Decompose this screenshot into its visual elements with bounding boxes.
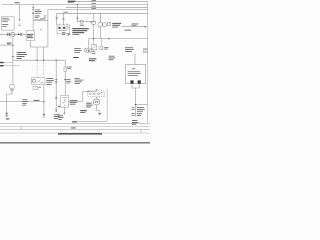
label right of coil [104, 46, 108, 49]
ground G4 symbol [5, 113, 8, 115]
wire y26.7 to border [122, 26, 145, 28]
label right of x135.5 [137, 107, 145, 116]
wire dropper x77.3 [76, 4, 78, 21]
label big dark block ceiling panel [72, 28, 89, 35]
coil circle K3 [100, 47, 103, 50]
label MAX a [132, 23, 139, 26]
wire y104.5 to border [136, 104, 148, 106]
filament glyphs [107, 22, 111, 26]
node dot row [18, 34, 20, 36]
relay K3 box [91, 45, 96, 50]
wire bus B3 [66, 6, 148, 8]
wire dropper x63.5 [63, 13, 65, 25]
node dot x65.2 y79.5 [64, 79, 66, 81]
label U1 text lines [2, 18, 10, 27]
arrow into border [145, 26, 147, 28]
lamp L2 circle [98, 22, 103, 27]
U3 inner marks [59, 29, 67, 32]
footer label b [71, 127, 76, 130]
label tiny left of K2 [58, 106, 60, 107]
connector bars x63.5 [63, 17, 65, 20]
wire stub y65.8 [4, 65, 20, 67]
wire lamp dropper x93.5 [93, 13, 95, 21]
label C4 near corner [44, 15, 46, 18]
wire right border [147, 2, 149, 124]
switch dashed box D1 [88, 91, 105, 97]
wire corner B x56.7 [56, 13, 58, 25]
label floating text x74 [75, 78, 84, 84]
node dot y38.6 [93, 38, 95, 40]
label wire color on B2 [92, 2, 96, 5]
connector bars on x33.1 [32, 6, 34, 9]
label protection mode text [17, 52, 27, 59]
wire stub y62.6 [4, 62, 13, 64]
wire dashed link x43.6 [43, 47, 45, 60]
switch box U3 [57, 25, 70, 34]
relay K2 box [61, 95, 69, 107]
footer rule 4 [0, 132, 150, 134]
motor M1 letter [95, 101, 97, 103]
wire terminal drops [132, 84, 139, 117]
wire motor to ground [96, 105, 98, 110]
connector bars left of x135.5 [132, 106, 135, 109]
wire vertical x30.3 [29, 41, 31, 47]
node dot x43.9 [43, 101, 45, 103]
terminal T2 [138, 80, 141, 83]
footer title dark text [58, 133, 102, 134]
label G text below K2 [58, 115, 63, 119]
relay K2 contacts [62, 98, 67, 107]
label U4 text [128, 71, 141, 75]
fuse F2 on x65.2 [64, 67, 66, 71]
wire fuse row y34.3 [0, 33, 26, 35]
connector arrow down at x19.5 [19, 19, 21, 21]
connector bars x77.3 [76, 16, 78, 19]
label wire color on B1 [92, 0, 96, 2]
footer tick right [140, 129, 142, 133]
footer label c [6, 117, 10, 120]
fuse F1 circle [11, 32, 15, 36]
wire vertical x88.4 [87, 39, 89, 49]
label wire color on B3 [92, 5, 96, 8]
wire below lamps [99, 27, 101, 39]
wire y45.1 left stub [0, 44, 13, 46]
footer rule 2 [0, 126, 150, 128]
K3 inner mark [92, 45, 96, 49]
U3 top terminal ticks [60, 24, 68, 25]
connector arrow x64.3 [63, 113, 65, 115]
wire run y20.3 [33, 19, 48, 21]
U3 contact squares [58, 27, 60, 29]
module box right of flasher [89, 49, 92, 52]
connector bars K3 [92, 50, 95, 53]
label bus B1 [68, 0, 76, 3]
wire y101.5 left run [0, 101, 44, 103]
label MAX b [125, 29, 132, 32]
footer rule 3 [0, 128, 150, 130]
wire below L1 [93, 25, 95, 39]
wire vertical x65.2 [64, 60, 66, 95]
wire dashed link x37.1 [36, 47, 38, 60]
label BL-W on y101.5 [34, 99, 40, 102]
label lamps dark text [112, 23, 121, 28]
motor M1 circle [93, 99, 99, 105]
label tiny in U4 [132, 67, 135, 70]
arrow right on y91.5 [88, 91, 90, 93]
wire feed solenoid [134, 54, 136, 65]
wire jog to ground col [7, 91, 12, 113]
node dot y60.2 c [55, 59, 57, 61]
label K1 text [46, 78, 54, 85]
connector bars x56.2 [55, 96, 57, 99]
relay K1 coil circle [32, 79, 35, 82]
fuse block box U1 [1, 17, 14, 30]
arrow on y38.6 [108, 38, 110, 40]
wire bus B5 [57, 12, 148, 14]
wire vertical x13 [12, 36, 14, 84]
label W-BL [7, 42, 11, 45]
connector pins below arrow [19, 23, 21, 26]
connector chevron [68, 33, 70, 35]
label ignition switch text [35, 10, 42, 21]
node dot x33.1 [32, 12, 34, 14]
label U2 text [27, 34, 34, 38]
label wire color on B5 [64, 11, 68, 14]
wire dropper x19.5 [19, 4, 21, 20]
footer label a [72, 121, 77, 124]
wire bus B1 HOT AT ALL TIMES [68, 1, 148, 3]
connector dashes x56 column [55, 79, 58, 83]
label text mid left col [22, 99, 28, 105]
enclosure edge right [73, 89, 108, 122]
label text x108 y56 [109, 56, 115, 60]
U3 circle [66, 27, 69, 30]
label K2 text [70, 100, 78, 104]
connector module left col [10, 85, 14, 88]
wire y47 [30, 46, 48, 48]
relay K1 contact [38, 80, 44, 83]
lamp L1 circle [92, 21, 96, 25]
relay K1 box [32, 78, 46, 85]
ground G2 marks [55, 109, 57, 112]
arrow small up x40.9 [40, 28, 41, 30]
wire y21.7 with arrow [77, 21, 91, 23]
flasher circle [85, 48, 89, 52]
lamp L3 circle [102, 23, 106, 27]
terminal T1 [130, 80, 133, 83]
wire long y38.6 [88, 38, 147, 40]
label tiny left edge [88, 49, 90, 52]
wire dropper x33.1 ignition feed [32, 4, 34, 30]
D1 contacts [89, 93, 91, 95]
label dark G3 [80, 110, 87, 111]
wire bus B4 [48, 9, 148, 11]
wire K2 bottom drop [63, 107, 65, 113]
wire lamp dropper x100.4 [99, 13, 101, 22]
node dot x135.5 [135, 104, 137, 106]
wire K3 bottom [93, 50, 95, 52]
node dot y60.2 b [43, 59, 45, 61]
label on B2 [15, 1, 20, 4]
label dark small under hazard [73, 57, 78, 58]
label wire color x65.2 [66, 79, 71, 83]
ground G3 arrow [98, 113, 101, 116]
connector bars on row [6, 33, 9, 36]
label wire color on B4 [92, 7, 96, 10]
wire coil top [100, 39, 102, 47]
label under blob [80, 24, 84, 27]
connector box at border [143, 48, 147, 52]
label F2 [67, 66, 72, 69]
label dark below K3 [89, 58, 97, 61]
node junction B2/x77 [77, 4, 78, 5]
wire vertical x43.9 to ground [43, 84, 45, 114]
diode module below K1 [33, 86, 37, 89]
ground G1 arrow [42, 114, 45, 117]
footer rule 1 [0, 122, 150, 124]
label left of chevron [62, 31, 65, 34]
solenoid box U4 [126, 64, 146, 83]
label G2 text [54, 114, 60, 118]
wire D1 to motor [95, 97, 97, 99]
footer heavy rule [0, 142, 150, 144]
connector blob circle [80, 20, 83, 23]
label on run y20.3 [40, 18, 45, 21]
connector bars x56.7 [56, 16, 58, 19]
wire long y60.2 [13, 59, 65, 61]
wire K2 right to motor box [68, 92, 96, 102]
label below wire end [132, 120, 138, 124]
wire vertical x56.2 [55, 60, 57, 112]
node dot y60.2 a [36, 59, 38, 61]
connector bars 2 on row [19, 33, 22, 36]
wire K3 top [93, 39, 95, 45]
wire bus B2 main top [2, 3, 148, 5]
label hazard text [74, 48, 81, 52]
label motor text [86, 103, 92, 108]
footer tick left [20, 127, 22, 130]
node dot x13 y56.5 [12, 56, 14, 58]
label left stub 1 [0, 62, 4, 63]
label left stub 2 [0, 65, 4, 66]
fuse box U2 [26, 31, 34, 41]
label above solenoid [125, 47, 134, 51]
node dot x12.7 y45 [12, 44, 14, 46]
wire vertical x47.9 [47, 10, 49, 47]
arrow into D1 [96, 89, 98, 91]
